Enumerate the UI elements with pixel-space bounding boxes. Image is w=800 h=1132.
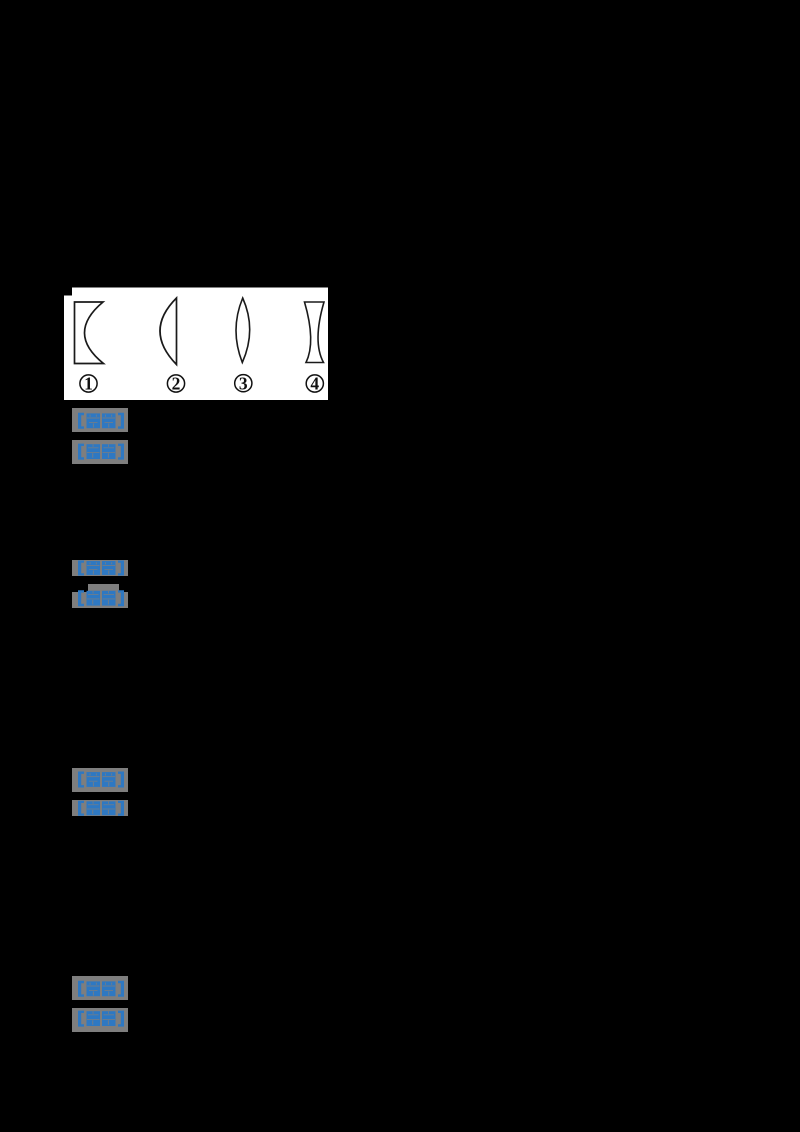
lens 1 (plano-concave, bracket shape) [75, 302, 104, 364]
svg-text:1: 1 [84, 374, 93, 394]
svg-text:2: 2 [172, 374, 181, 394]
analysis label 1 (highlighted blue text) [72, 440, 128, 464]
lens 2 (plano-convex) [160, 298, 177, 365]
circled number 3 [235, 375, 252, 392]
answer label 4 (highlighted blue text) [72, 976, 128, 1000]
lens 4 (biconcave) [305, 302, 325, 363]
white panel background (stepped top-left corner) [64, 288, 328, 401]
circled number 1 [80, 375, 97, 392]
analysis label 3 (highlighted blue text) [72, 800, 128, 816]
answer label 3 (highlighted blue text) [72, 768, 128, 792]
answer label 2 (highlighted blue text) [72, 560, 128, 576]
svg-text:4: 4 [310, 374, 319, 394]
analysis label 4 (highlighted blue text) [72, 1008, 128, 1032]
answer label 1 (highlighted blue text) [72, 408, 128, 432]
circled number 4 [306, 375, 323, 392]
svg-text:3: 3 [239, 373, 248, 393]
figure: lens diagram white panel [64, 287, 328, 400]
analysis label 2 (highlighted blue text, stepped highlight) [72, 584, 128, 608]
lens 3 (biconvex) [236, 298, 250, 363]
circled number 2 [167, 375, 184, 392]
